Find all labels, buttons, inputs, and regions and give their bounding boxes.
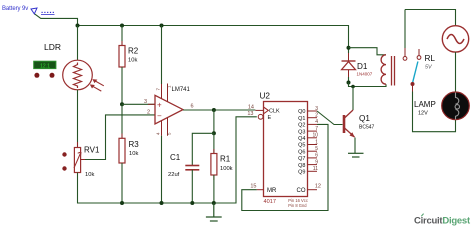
- wire RV1 wiper to pin2: [81, 115, 155, 160]
- svg-text:10k: 10k: [129, 151, 138, 157]
- wire pin3: [122, 103, 155, 105]
- pin MR stub: [257, 189, 264, 191]
- svg-text:LAMP: LAMP: [414, 100, 436, 109]
- svg-text:15: 15: [250, 184, 256, 190]
- wire output down: [213, 110, 215, 133]
- svg-text:Q8: Q8: [298, 163, 305, 169]
- resistor R1: [211, 133, 217, 203]
- svg-text:6: 6: [315, 153, 318, 159]
- svg-text:LM741: LM741: [172, 87, 191, 93]
- svg-text:12V: 12V: [418, 111, 428, 117]
- pin 5 stub: [167, 118, 169, 136]
- pin CLK stub: [255, 109, 263, 111]
- pin 7 stub: [161, 84, 163, 100]
- wire opamp V- to ground: [161, 136, 163, 203]
- svg-text:Q9: Q9: [298, 170, 305, 176]
- node rail-D1 junction: [347, 46, 351, 50]
- wire top rail: [78, 26, 349, 48]
- op-amp U1 LM741: [155, 95, 183, 124]
- wire to C1 top: [192, 133, 214, 165]
- RV1 indicator dot bottom: [62, 166, 66, 170]
- svg-text:−: −: [157, 112, 162, 121]
- svg-text:RV1: RV1: [84, 146, 100, 155]
- svg-text:13: 13: [247, 111, 253, 117]
- svg-text:14: 14: [248, 104, 254, 110]
- pin 1 stub: [167, 84, 169, 103]
- node rail-C1 junction: [190, 201, 194, 205]
- svg-text:RL: RL: [425, 54, 436, 63]
- battery terminal: [31, 8, 37, 14]
- node rail-R1-ground junction: [212, 201, 216, 205]
- svg-text:Q6: Q6: [298, 149, 305, 155]
- node rail-opamp supply junction: [160, 24, 164, 28]
- LDR display: [34, 61, 56, 69]
- svg-text:10k: 10k: [85, 172, 94, 178]
- svg-text:Q1: Q1: [359, 114, 370, 123]
- wire LDR top: [77, 26, 79, 61]
- LDR photoresistor: [63, 60, 93, 90]
- svg-text:CircuitDigest: CircuitDigest: [414, 215, 471, 226]
- svg-text:7: 7: [315, 126, 318, 132]
- svg-text:R1: R1: [220, 155, 231, 164]
- wire C1 bottom: [191, 170, 193, 203]
- svg-text:R3: R3: [129, 140, 140, 149]
- relay switch contact right: [418, 49, 420, 55]
- svg-text:Q1: Q1: [298, 116, 305, 122]
- relay common pole: [411, 82, 415, 86]
- node pin3 junction: [120, 102, 124, 106]
- ground symbol Q1: [348, 153, 364, 157]
- node rail-LDR junction: [76, 24, 80, 28]
- node C1-R1 junction: [212, 131, 216, 135]
- svg-text:+: +: [157, 100, 162, 109]
- svg-text:CO: CO: [297, 188, 306, 194]
- svg-text:Q3: Q3: [298, 129, 305, 135]
- svg-text:3: 3: [315, 106, 318, 112]
- svg-text:10: 10: [312, 133, 318, 139]
- svg-text:C1: C1: [170, 153, 181, 162]
- resistor R2: [119, 26, 125, 105]
- wire AC top loop: [405, 10, 456, 26]
- wire RV1 bottom to ground rail: [78, 117, 257, 203]
- node rail-R2 junction: [120, 24, 124, 28]
- relay RL coil: [381, 55, 386, 84]
- ground symbol main: [206, 203, 222, 221]
- lamp: [442, 92, 470, 120]
- svg-text:4017: 4017: [264, 199, 276, 205]
- diode D1: [342, 48, 356, 83]
- potentiometer RV1: [74, 148, 81, 173]
- wire AC to lamp: [455, 52, 457, 92]
- node D1 anode junction: [347, 81, 351, 85]
- node output-C1R1 junction: [212, 108, 216, 112]
- relay core: [391, 56, 393, 86]
- svg-text:LDR: LDR: [44, 42, 61, 52]
- wire opamp output: [183, 109, 255, 111]
- wire common to lamp bottom: [413, 92, 456, 132]
- svg-text:12.1: 12.1: [40, 63, 50, 69]
- wire Q0 to Q1 base: [317, 111, 343, 125]
- IC U2 4017: [264, 102, 308, 197]
- svg-text:1N4007: 1N4007: [357, 72, 373, 77]
- RV1 indicator dot top: [62, 152, 66, 156]
- capacitor C1: [185, 166, 199, 170]
- svg-text:R2: R2: [128, 47, 139, 56]
- node rail-pin4 junction: [160, 201, 164, 205]
- svg-text:Q0: Q0: [298, 109, 305, 115]
- wire opamp V+: [161, 26, 163, 85]
- svg-text:12: 12: [315, 184, 321, 190]
- AC source: [442, 26, 468, 52]
- LDR indicator dots: [34, 73, 39, 78]
- wire coil top: [349, 48, 387, 55]
- svg-text:E: E: [268, 115, 272, 121]
- svg-text:9: 9: [315, 159, 318, 165]
- svg-text:MR: MR: [267, 188, 277, 194]
- svg-text:Battery 9v: Battery 9v: [2, 6, 28, 12]
- svg-text:Q7: Q7: [298, 156, 305, 162]
- svg-text:22uf: 22uf: [168, 172, 180, 178]
- svg-text:2: 2: [147, 109, 150, 115]
- svg-text:11: 11: [313, 166, 318, 172]
- svg-text:2: 2: [315, 113, 318, 119]
- svg-text:Q5: Q5: [298, 143, 305, 149]
- battery terminal label dots and underline: [42, 12, 54, 13]
- transistor Q1 BC547: [344, 110, 355, 138]
- pin CO stub: [308, 189, 318, 191]
- relay switch contact left: [404, 10, 406, 49]
- svg-text:3: 3: [144, 99, 147, 105]
- svg-text:D1: D1: [357, 62, 368, 71]
- wire LDR bottom to RV1: [77, 90, 79, 148]
- svg-text:100k: 100k: [220, 166, 233, 172]
- CircuitDigest logo: [414, 214, 471, 227]
- svg-text:Pin 8 Gnd: Pin 8 Gnd: [288, 203, 307, 208]
- svg-text:5: 5: [315, 146, 318, 152]
- wire emitter to ground: [354, 138, 356, 154]
- node collector junction: [351, 85, 355, 89]
- wire Q2 to MR feedback: [242, 124, 328, 210]
- svg-text:CLK: CLK: [269, 109, 280, 115]
- wire coil bottom / collector: [349, 83, 387, 87]
- svg-text:U2: U2: [260, 92, 271, 101]
- svg-text:BC547: BC547: [359, 125, 375, 131]
- pin 4 stub: [161, 121, 163, 136]
- relay lever: [413, 62, 418, 84]
- svg-text:1: 1: [315, 139, 318, 145]
- LDR light arrows: [91, 80, 104, 91]
- svg-text:Q4: Q4: [298, 136, 305, 142]
- svg-text:10k: 10k: [128, 58, 137, 64]
- node rail-R3 junction: [120, 201, 124, 205]
- svg-text:Q2: Q2: [298, 123, 305, 129]
- resistor R3: [119, 104, 125, 203]
- wire battery to rail: [35, 14, 78, 26]
- Q outputs stubs and labels: [308, 111, 318, 171]
- pin E bubble: [258, 114, 263, 119]
- svg-text:6: 6: [191, 104, 194, 110]
- wire collector: [352, 87, 354, 111]
